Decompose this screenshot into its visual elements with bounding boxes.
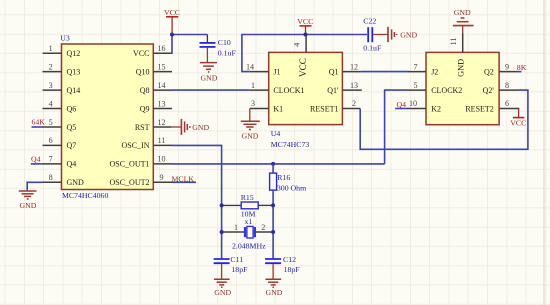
- svg-text:Q12: Q12: [67, 49, 81, 58]
- U4B pin names: [431, 59, 494, 113]
- svg-text:C22: C22: [363, 17, 376, 26]
- svg-text:13: 13: [157, 99, 165, 108]
- IC U3 MC74HC4060 body: [60, 33, 153, 200]
- svg-text:Q2: Q2: [484, 68, 494, 77]
- junction crystal right: [271, 230, 275, 234]
- svg-text:8: 8: [505, 81, 509, 90]
- svg-text:2: 2: [49, 62, 53, 71]
- svg-text:MC74HC73: MC74HC73: [271, 140, 310, 149]
- svg-text:OSC_OUT2: OSC_OUT2: [109, 178, 149, 187]
- wire OSC_OUT1 up to CLOCK2: [385, 90, 408, 164]
- svg-text:3: 3: [49, 81, 53, 90]
- svg-text:1: 1: [49, 44, 53, 53]
- net label 8K: [517, 63, 527, 72]
- svg-text:3: 3: [251, 99, 255, 108]
- svg-text:12: 12: [157, 118, 165, 127]
- junction R15 right: [271, 203, 275, 207]
- net label 64K: [32, 118, 46, 127]
- ground symbol C11: [214, 264, 230, 287]
- U3 pin numbers right: [157, 44, 165, 182]
- svg-text:15: 15: [157, 62, 165, 71]
- wire right crystal column: [272, 205, 274, 258]
- ground label C10: [200, 73, 217, 82]
- U3 pin names right: [109, 49, 149, 187]
- svg-text:2: 2: [261, 223, 265, 232]
- svg-text:Q9: Q9: [140, 104, 150, 113]
- svg-text:MCLK: MCLK: [172, 174, 195, 183]
- U4 pin numbers: [246, 43, 358, 109]
- svg-text:Q14: Q14: [67, 86, 81, 95]
- svg-text:OSC_OUT1: OSC_OUT1: [109, 160, 149, 169]
- svg-text:Q2': Q2': [483, 86, 495, 95]
- svg-text:U3: U3: [60, 33, 70, 42]
- net label 8K wire: [518, 71, 522, 73]
- ground symbol sideways at C22: [373, 27, 396, 42]
- svg-text:14: 14: [246, 62, 254, 71]
- svg-text:OSC_IN: OSC_IN: [121, 141, 149, 150]
- ground symbol sideways at RST pin 12: [171, 119, 189, 135]
- wire U3 pin16 to VCC rail: [172, 35, 207, 54]
- svg-text:K1: K1: [273, 104, 283, 113]
- junction VCC2: [304, 33, 308, 37]
- ground label K1: [242, 131, 259, 140]
- svg-text:18pF: 18pF: [284, 265, 301, 274]
- svg-text:Q4: Q4: [31, 155, 41, 164]
- ground label C11: [214, 288, 231, 297]
- svg-text:J2: J2: [431, 68, 438, 77]
- net label MCLK: [172, 174, 195, 183]
- svg-text:GND: GND: [67, 178, 85, 187]
- svg-text:16: 16: [157, 44, 165, 53]
- svg-text:Q1: Q1: [329, 68, 339, 77]
- svg-text:10: 10: [409, 99, 417, 108]
- svg-text:0.1uF: 0.1uF: [218, 48, 237, 57]
- U3 pin stubs right pins 16-9: [153, 53, 172, 182]
- net label Q4: [31, 155, 41, 164]
- svg-text:Q4: Q4: [397, 100, 407, 109]
- wire OSC_OUT1 long: [172, 163, 385, 165]
- svg-text:K2: K2: [431, 104, 441, 113]
- svg-text:GND: GND: [454, 8, 471, 17]
- wire Q1 to J2: [361, 71, 408, 73]
- svg-text:2.048MHz: 2.048MHz: [232, 241, 266, 250]
- VCC rail to U4 and C22: [242, 35, 367, 72]
- U3 pin names left: [67, 49, 85, 187]
- svg-text:GND: GND: [200, 73, 217, 82]
- svg-text:U4: U4: [271, 129, 281, 138]
- svg-text:12: 12: [350, 62, 358, 71]
- svg-text:1: 1: [251, 81, 255, 90]
- VCC power symbol RESET2: [510, 109, 526, 128]
- net label MCLK wire pin 9: [172, 181, 196, 183]
- svg-text:5: 5: [49, 118, 53, 127]
- svg-text:11: 11: [158, 136, 166, 145]
- svg-text:5: 5: [413, 81, 417, 90]
- svg-text:Q6: Q6: [67, 104, 77, 113]
- svg-text:9: 9: [159, 173, 163, 182]
- svg-text:CLOCK1: CLOCK1: [273, 86, 304, 95]
- svg-text:Q5: Q5: [67, 123, 77, 132]
- U4 pin names: [273, 58, 339, 113]
- svg-text:0.1uF: 0.1uF: [363, 44, 382, 53]
- svg-text:GND: GND: [20, 201, 37, 210]
- svg-text:13: 13: [350, 81, 358, 90]
- wire Q8 to CLOCK1: [172, 89, 250, 91]
- svg-text:Q4: Q4: [67, 160, 77, 169]
- ground symbol C12: [265, 264, 281, 287]
- ground symbol pin 8: [19, 191, 37, 199]
- U4 pin stubs: [250, 36, 362, 109]
- svg-text:VCC: VCC: [298, 58, 308, 77]
- U4B pin numbers: [409, 38, 509, 109]
- svg-text:VCC: VCC: [164, 8, 180, 17]
- net label Q4 wire: [31, 163, 43, 165]
- svg-text:MC74HC4060: MC74HC4060: [62, 191, 108, 200]
- U3 pin stubs left pins 1-8: [43, 53, 62, 182]
- svg-text:R15: R15: [241, 193, 254, 202]
- svg-text:J1: J1: [273, 68, 280, 77]
- ground symbol K1: [241, 109, 260, 130]
- svg-text:Q13: Q13: [67, 67, 81, 76]
- svg-text:GND: GND: [214, 288, 231, 297]
- svg-text:GND: GND: [457, 59, 466, 77]
- ground label top U4B: [454, 8, 471, 17]
- wire OSC_IN down to crystal: [172, 145, 222, 258]
- svg-text:14: 14: [157, 81, 165, 90]
- svg-text:VCC: VCC: [510, 118, 526, 127]
- svg-text:R16: R16: [277, 173, 290, 182]
- svg-text:10: 10: [157, 155, 165, 164]
- svg-text:11: 11: [449, 38, 458, 46]
- IC U4B MC74HC73 second half body: [426, 52, 499, 124]
- junction R15 left: [220, 203, 224, 207]
- net label 64K wire: [32, 126, 43, 128]
- capacitor C22: [363, 17, 382, 53]
- capacitor C11: [214, 255, 248, 274]
- ground label RST: [192, 123, 209, 132]
- svg-text:Q7: Q7: [67, 141, 77, 150]
- ground symbol C10: [200, 48, 217, 72]
- crystal X1: [222, 217, 274, 250]
- net label wire Q4 K2: [395, 108, 407, 110]
- ground label pin 8: [20, 201, 37, 210]
- svg-text:Q8: Q8: [140, 86, 150, 95]
- svg-text:GND: GND: [242, 131, 259, 140]
- junction OSC_OUT1 R16: [271, 162, 275, 166]
- net label Q4 at K2: [397, 100, 407, 109]
- wire RESET1 to Q2bar: [360, 90, 528, 149]
- svg-text:6: 6: [49, 136, 53, 145]
- svg-text:6: 6: [505, 99, 509, 108]
- svg-text:64K: 64K: [32, 118, 46, 127]
- capacitor C10: [200, 35, 237, 58]
- svg-text:RESET1: RESET1: [310, 104, 338, 113]
- ground label C12: [266, 288, 283, 297]
- svg-text:CLOCK2: CLOCK2: [431, 86, 462, 95]
- svg-text:C11: C11: [230, 255, 243, 264]
- VCC power symbol U4: [297, 17, 313, 35]
- svg-text:7: 7: [49, 155, 53, 164]
- U3 pin numbers left: [49, 44, 53, 182]
- svg-text:VCC: VCC: [297, 17, 313, 26]
- VCC power symbol U3 pin 16: [164, 8, 180, 34]
- svg-text:4: 4: [293, 43, 302, 47]
- svg-text:8K: 8K: [517, 63, 527, 72]
- sheet border right: [543, 0, 545, 305]
- svg-text:RESET2: RESET2: [465, 104, 493, 113]
- svg-text:Q1': Q1': [327, 86, 339, 95]
- svg-text:18pF: 18pF: [231, 265, 248, 274]
- svg-text:Q10: Q10: [136, 67, 150, 76]
- svg-text:C10: C10: [218, 38, 231, 47]
- resistor R16: [270, 164, 307, 206]
- svg-text:1: 1: [234, 223, 238, 232]
- svg-text:9: 9: [505, 62, 509, 71]
- IC U4 MC74HC73 body: [269, 52, 343, 149]
- svg-text:7: 7: [413, 62, 417, 71]
- junction VCC1: [170, 33, 174, 37]
- svg-text:RST: RST: [135, 123, 150, 132]
- svg-text:4: 4: [49, 99, 53, 108]
- ground label C22: [400, 30, 417, 39]
- svg-text:C12: C12: [283, 255, 296, 264]
- wire GND pin 8: [27, 182, 42, 190]
- svg-text:2: 2: [352, 99, 356, 108]
- U4B pin stubs: [408, 33, 520, 109]
- svg-text:x1: x1: [245, 217, 253, 226]
- svg-text:8: 8: [49, 173, 53, 182]
- capacitor C12: [265, 255, 300, 274]
- junction crystal left: [220, 230, 224, 234]
- svg-text:GND: GND: [400, 30, 417, 39]
- resistor R15: [222, 193, 274, 219]
- svg-text:GND: GND: [192, 123, 209, 132]
- svg-text:VCC: VCC: [133, 49, 149, 58]
- ground symbol top of U4B: [453, 18, 474, 34]
- svg-text:300 Ohm: 300 Ohm: [277, 184, 306, 193]
- svg-text:GND: GND: [266, 288, 283, 297]
